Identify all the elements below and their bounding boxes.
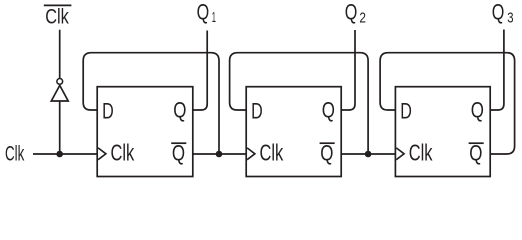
label Q2 xyxy=(345,0,366,27)
wire: Clk input to FF1 clock pin xyxy=(33,153,97,155)
wire: feedback loop Q-bar2 to D2 (over U2) xyxy=(230,53,369,154)
svg-text:Q: Q xyxy=(197,0,210,24)
svg-text:Q: Q xyxy=(320,141,333,166)
U1 pin label Clk xyxy=(111,140,135,166)
U3 pin label Q xyxy=(471,98,484,123)
svg-text:Clk: Clk xyxy=(260,140,284,166)
U2 clock edge wedge xyxy=(247,148,255,160)
svg-text:Q: Q xyxy=(492,0,505,25)
wire: inverter input (up from Clk line) xyxy=(59,101,61,155)
svg-text:Q: Q xyxy=(471,98,484,123)
flip-flop U3 body xyxy=(395,87,490,177)
U3 pin label D xyxy=(400,98,412,123)
svg-text:D: D xyxy=(400,98,412,123)
svg-text:Q: Q xyxy=(172,141,185,166)
wire: Q-bar2 to Clk3 xyxy=(341,153,395,155)
U3 pin label Clk xyxy=(409,140,433,166)
U2 pin label Clk xyxy=(260,140,284,166)
svg-text:Clk: Clk xyxy=(409,140,433,166)
U2 pin label D xyxy=(251,98,263,123)
label Q3 xyxy=(492,0,514,27)
flip-flop U1 body xyxy=(97,87,193,177)
U1 pin label Q-bar xyxy=(171,141,186,166)
U3 clock edge wedge xyxy=(396,148,404,160)
wire: Q3 output up to label xyxy=(490,30,504,111)
label Q1 xyxy=(197,0,216,26)
svg-text:Q: Q xyxy=(322,98,335,123)
svg-text:3: 3 xyxy=(507,11,513,27)
U1 pin label Q xyxy=(173,98,186,123)
svg-text:D: D xyxy=(102,98,114,123)
svg-text:Clk: Clk xyxy=(5,143,25,166)
U1 clock edge wedge xyxy=(98,148,106,160)
U2 pin label Q xyxy=(322,98,335,123)
U3 pin label Q-bar xyxy=(469,141,484,166)
node: junction dot Clk / inverter branch xyxy=(56,151,63,158)
wire: Q-bar1 to Clk2 xyxy=(193,153,246,155)
svg-text:Clk: Clk xyxy=(111,140,135,166)
node: junction dot Q-bar1 / Clk2 xyxy=(216,151,223,158)
svg-text:Q: Q xyxy=(173,98,186,123)
svg-text:D: D xyxy=(251,98,263,123)
svg-text:2: 2 xyxy=(359,11,366,27)
wire: Q1 output up to label xyxy=(193,31,207,111)
wire: Q2 output up to label xyxy=(341,30,355,110)
label Clk (external clock input) xyxy=(5,143,25,166)
U2 pin label Q-bar xyxy=(320,141,335,166)
svg-text:Clk: Clk xyxy=(45,6,69,29)
label Clk-bar (inverted clock) xyxy=(44,5,72,28)
inverter U4 (clock inverter, pointing up) xyxy=(51,79,68,102)
U1 pin label D xyxy=(102,98,114,123)
svg-text:Q: Q xyxy=(469,141,482,166)
wire: feedback loop Q-bar1 to D1 (over U1) xyxy=(83,53,219,154)
flip-flop U2 body xyxy=(246,87,341,177)
node: junction dot Q-bar2 / Clk3 xyxy=(365,151,372,158)
wire: inverter output to Clk-bar label xyxy=(59,30,61,79)
svg-text:Q: Q xyxy=(345,0,358,25)
wire: feedback loop Q-bar3 to D3 (over U3) xyxy=(380,53,514,154)
svg-text:1: 1 xyxy=(212,10,216,26)
